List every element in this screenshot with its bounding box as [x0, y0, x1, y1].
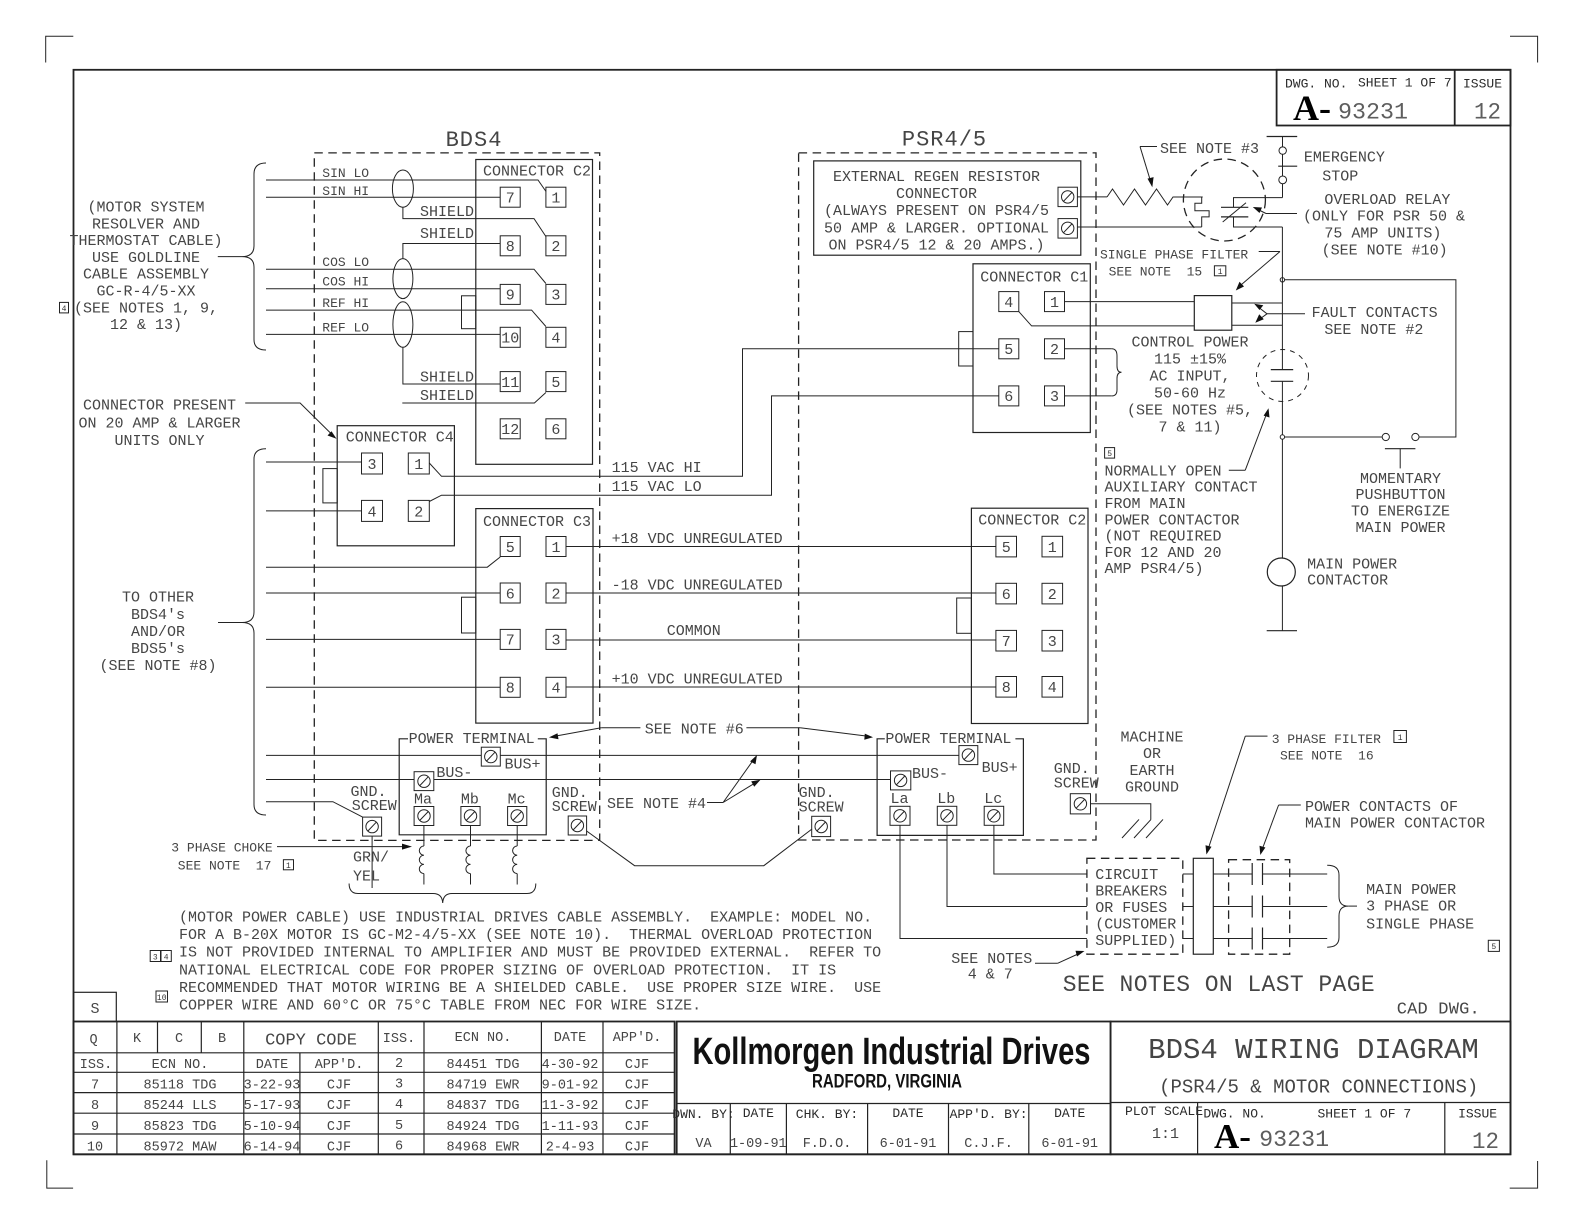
screw terminal BUS+ (BDS4)	[481, 747, 540, 773]
wire SIN HI	[266, 184, 500, 199]
svg-text:A-: A-	[1214, 1117, 1251, 1156]
svg-text:CONNECTOR PRESENT: CONNECTOR PRESENT	[83, 398, 236, 415]
svg-text:ISSUE: ISSUE	[1458, 1107, 1497, 1122]
contactor contact bars phase C	[1252, 928, 1262, 950]
connector C3 (BDS4)	[462, 509, 594, 723]
svg-text:4: 4	[164, 953, 169, 962]
connector C2 (PSR)	[957, 508, 1088, 723]
C2 pin 6	[546, 419, 566, 439]
svg-text:PUSHBUTTON: PUSHBUTTON	[1355, 487, 1445, 504]
svg-text:POWER CONTACTOR: POWER CONTACTOR	[1105, 512, 1240, 529]
label BDS4	[446, 128, 503, 153]
svg-text:12: 12	[501, 422, 519, 439]
svg-text:MAIN POWER: MAIN POWER	[1307, 556, 1397, 573]
svg-text:REF HI: REF HI	[322, 296, 369, 311]
svg-text:Ma: Ma	[414, 792, 432, 809]
svg-text:4 & 7: 4 & 7	[968, 967, 1013, 984]
svg-text:10: 10	[501, 331, 519, 348]
3 phase filter block	[1193, 858, 1213, 954]
svg-text:7: 7	[91, 1079, 99, 1094]
svg-text:85823 TDG: 85823 TDG	[144, 1120, 217, 1135]
wire shield of SIN pair to pin 2	[403, 204, 546, 237]
svg-text:(SEE NOTES 1, 9,: (SEE NOTES 1, 9,	[74, 300, 218, 317]
revision table row ISS 8 and 4	[91, 1098, 649, 1114]
note flag 4	[60, 302, 69, 313]
svg-text:STOP: STOP	[1322, 169, 1358, 186]
svg-text:PLOT SCALE: PLOT SCALE	[1125, 1104, 1203, 1119]
svg-text:SEE NOTE 17: SEE NOTE 17	[178, 859, 272, 874]
gnd screw left (PSR)	[799, 785, 844, 837]
contact terminal circle B	[1412, 433, 1419, 440]
single phase filter box	[1194, 296, 1232, 331]
svg-text:Mc: Mc	[508, 792, 526, 809]
svg-text:CJF: CJF	[327, 1099, 351, 1114]
label FAULT CONTACTS with arrows	[1254, 304, 1437, 339]
svg-text:5: 5	[1004, 342, 1013, 359]
gnd screw right (BDS4)	[552, 785, 597, 835]
svg-text:CONNECTOR: CONNECTOR	[896, 186, 977, 203]
svg-text:DATE: DATE	[1054, 1106, 1085, 1121]
wire +10 VDC UNREGULATED	[566, 672, 996, 689]
svg-text:2: 2	[551, 239, 560, 256]
note flag 5 (right edge)	[1488, 940, 1499, 952]
PSR C2 pin 7	[996, 630, 1017, 651]
svg-text:DATE: DATE	[554, 1031, 586, 1046]
wire from regen screw 1	[1077, 196, 1107, 198]
wire bus to C3 pin 6	[266, 592, 500, 594]
earth ground symbol	[1122, 819, 1163, 838]
company title block	[672, 1022, 1110, 1155]
svg-text:1:1: 1:1	[1152, 1126, 1179, 1143]
resistor external regen	[1107, 189, 1203, 205]
C2 pin 8	[500, 236, 520, 256]
gnd screw left (BDS4)	[351, 784, 397, 836]
svg-text:(ALWAYS PRESENT ON PSR4/5: (ALWAYS PRESENT ON PSR4/5	[824, 203, 1049, 220]
svg-text:CIRCUIT: CIRCUIT	[1095, 867, 1158, 884]
svg-text:GROUND: GROUND	[1125, 780, 1179, 797]
momentary pushbutton actuator	[1385, 449, 1416, 469]
svg-text:11-3-92: 11-3-92	[542, 1099, 599, 1114]
svg-text:SCREW: SCREW	[352, 798, 397, 815]
svg-text:SIN LO: SIN LO	[322, 166, 369, 181]
svg-text:3: 3	[1050, 389, 1059, 406]
svg-text:3: 3	[395, 1078, 403, 1093]
main control bus vertical	[1281, 227, 1283, 631]
revision table row ISS 9 and 5	[91, 1119, 649, 1135]
svg-text:4: 4	[395, 1098, 403, 1113]
svg-text:12: 12	[1472, 1129, 1499, 1155]
C1 pin 5	[999, 339, 1019, 359]
svg-text:Lc: Lc	[984, 791, 1002, 808]
revision table grid	[74, 1022, 675, 1155]
svg-text:ISS.: ISS.	[383, 1032, 415, 1047]
svg-text:84924 TDG: 84924 TDG	[447, 1120, 520, 1135]
wire motor phase Mc with choke coil	[513, 826, 518, 885]
power terminal PSR	[877, 731, 1023, 835]
svg-text:SEE NOTES: SEE NOTES	[951, 951, 1032, 968]
svg-text:A-: A-	[1293, 88, 1331, 128]
contact terminal circle A	[1382, 433, 1389, 440]
PSR4/5 enclosure dashed box	[799, 153, 1096, 840]
svg-text:1: 1	[1398, 734, 1403, 743]
C2 pin 12	[500, 419, 520, 439]
contactor contact bars phase A	[1252, 863, 1262, 885]
svg-text:EMERGENCY: EMERGENCY	[1304, 150, 1385, 167]
svg-text:9: 9	[91, 1120, 99, 1135]
svg-text:2: 2	[414, 504, 423, 521]
wire motor phase Mb with choke coil	[466, 826, 471, 885]
svg-text:1-09-91: 1-09-91	[730, 1137, 787, 1152]
svg-text:FAULT CONTACTS: FAULT CONTACTS	[1312, 305, 1438, 322]
svg-text:+18 VDC UNREGULATED: +18 VDC UNREGULATED	[612, 531, 783, 548]
note flag 1 (choke)	[283, 860, 293, 871]
svg-text:4: 4	[551, 331, 560, 348]
wire -18 VDC UNREGULATED	[566, 578, 996, 595]
PSR C2 pin 5	[996, 536, 1017, 557]
bus termination bar	[1267, 630, 1297, 632]
note NORMALLY OPEN AUXILIARY CONTACT with arrow	[1105, 408, 1270, 578]
svg-text:8: 8	[1002, 680, 1011, 697]
label SEE NOTE #3 with arrow	[1140, 141, 1259, 187]
svg-text:OVERLOAD RELAY: OVERLOAD RELAY	[1324, 192, 1450, 209]
PSR C2 pin 4	[1042, 677, 1063, 698]
svg-text:CAD DWG.: CAD DWG.	[1397, 1001, 1480, 1020]
label SEE NOTES ON LAST PAGE	[1063, 972, 1375, 998]
svg-text:2: 2	[1048, 587, 1057, 604]
svg-text:OR FUSES: OR FUSES	[1095, 900, 1167, 917]
svg-text:115 VAC LO: 115 VAC LO	[612, 479, 702, 496]
ground bus between BDS4 and PSR gnd screws	[587, 829, 812, 866]
svg-text:9-01-92: 9-01-92	[542, 1079, 599, 1094]
C3 pin 3	[546, 629, 566, 649]
svg-text:APP'D. BY:: APP'D. BY:	[950, 1107, 1028, 1122]
wire PSR gnd screw to earth	[1091, 804, 1151, 820]
wire shield to pin 8	[403, 226, 500, 259]
svg-text:FOR 12 AND 20: FOR 12 AND 20	[1105, 545, 1222, 562]
connector C4 (BDS4)	[323, 426, 455, 546]
svg-text:75 AMP UNITS): 75 AMP UNITS)	[1324, 226, 1441, 243]
svg-text:SCREW: SCREW	[799, 800, 844, 817]
svg-text:BUS-: BUS-	[436, 765, 472, 782]
svg-text:IS NOT PROVIDED INTERNAL TO AM: IS NOT PROVIDED INTERNAL TO AMPLIFIER AN…	[179, 945, 881, 962]
svg-text:85972 MAW: 85972 MAW	[144, 1140, 218, 1155]
svg-text:2: 2	[395, 1057, 403, 1072]
C2 pin 3	[546, 284, 566, 304]
external regen resistor connector box	[814, 161, 1081, 255]
svg-text:B: B	[218, 1032, 226, 1047]
svg-text:6: 6	[506, 586, 515, 603]
svg-text:SEE NOTE #3: SEE NOTE #3	[1160, 141, 1259, 158]
svg-text:3-22-93: 3-22-93	[244, 1079, 301, 1094]
C1 pin 1	[1045, 292, 1065, 312]
C4 pin 2	[408, 500, 429, 521]
screw terminal Mc	[508, 792, 527, 826]
svg-text:6: 6	[395, 1139, 403, 1154]
PSR C2 pin 1	[1042, 536, 1063, 557]
svg-text:85244 LLS: 85244 LLS	[144, 1099, 217, 1114]
svg-text:COPPER WIRE AND 60°C OR 75°C T: COPPER WIRE AND 60°C OR 75°C TABLE FROM …	[179, 998, 701, 1015]
svg-text:CONNECTOR C4: CONNECTOR C4	[346, 429, 454, 446]
screw terminal BUS- (PSR)	[891, 766, 949, 790]
screw terminal Lb	[937, 791, 957, 825]
svg-text:93231: 93231	[1259, 1127, 1329, 1153]
svg-text:NORMALLY OPEN: NORMALLY OPEN	[1105, 463, 1222, 480]
svg-text:POWER TERMINAL: POWER TERMINAL	[409, 731, 535, 748]
svg-text:5: 5	[551, 375, 560, 392]
note flag 5 (aux contact)	[1105, 448, 1115, 459]
svg-text:Q: Q	[89, 1033, 97, 1048]
svg-text:BDS4: BDS4	[446, 128, 503, 153]
svg-text:ECN NO.: ECN NO.	[152, 1058, 209, 1073]
svg-text:MAIN POWER: MAIN POWER	[1355, 520, 1445, 537]
svg-text:CONTACTOR: CONTACTOR	[1307, 572, 1388, 589]
circuit breakers dashed box	[1087, 858, 1183, 954]
wire SIN LO	[266, 166, 546, 192]
svg-text:(PSR4/5 & MOTOR CONNECTIONS): (PSR4/5 & MOTOR CONNECTIONS)	[1159, 1077, 1478, 1099]
power terminal BDS4	[399, 731, 546, 835]
svg-text:7 & 11): 7 & 11)	[1158, 420, 1221, 437]
svg-text:FOR A B-20X MOTOR IS GC-M2-4/5: FOR A B-20X MOTOR IS GC-M2-4/5-XX (SEE N…	[179, 927, 872, 944]
svg-text:PSR4/5: PSR4/5	[902, 128, 987, 153]
C1 pin 6	[999, 386, 1019, 406]
label MACHINE OR EARTH GROUND	[1120, 730, 1183, 797]
label SEE NOTE #4 with arrows	[607, 755, 761, 813]
svg-text:84451 TDG: 84451 TDG	[447, 1058, 520, 1073]
svg-text:MACHINE: MACHINE	[1120, 730, 1183, 747]
note flags 3 4	[150, 951, 171, 963]
C3 pin 7	[500, 629, 520, 649]
note (MOTOR SYSTEM RESOLVER AND THERMOSTAT CABLE)	[69, 200, 222, 335]
screw terminal Lc	[984, 791, 1004, 825]
wire C1 pin 2 to brace	[1065, 348, 1112, 350]
svg-text:1-11-93: 1-11-93	[542, 1120, 599, 1135]
twisted pair symbol COS	[393, 259, 413, 299]
svg-text:C: C	[175, 1032, 183, 1047]
svg-text:CJF: CJF	[625, 1058, 649, 1073]
drawing title block	[1111, 1022, 1511, 1157]
svg-text:SEE NOTE #6: SEE NOTE #6	[645, 722, 744, 739]
svg-text:CJF: CJF	[625, 1079, 649, 1094]
wire bus to C3 pin 5	[266, 557, 500, 567]
twisted pair symbol SIN	[392, 170, 413, 207]
svg-text:9: 9	[506, 288, 515, 305]
note flag 10	[156, 991, 168, 1003]
power contacts dashed box	[1229, 860, 1290, 955]
note TO OTHER BDS4's	[99, 590, 216, 675]
C2 pin 7	[500, 187, 520, 207]
wire to gnd screw left	[266, 802, 363, 817]
svg-text:BREAKERS: BREAKERS	[1095, 884, 1167, 901]
svg-text:(SEE NOTES #5,: (SEE NOTES #5,	[1127, 403, 1253, 420]
svg-text:CJF: CJF	[327, 1079, 351, 1094]
svg-text:ON 20 AMP & LARGER: ON 20 AMP & LARGER	[78, 416, 240, 433]
C3 pin 4	[546, 677, 566, 697]
svg-text:GC-R-4/5-XX: GC-R-4/5-XX	[96, 284, 195, 301]
C3 pin 2	[546, 583, 566, 603]
svg-text:SEE NOTES ON LAST PAGE: SEE NOTES ON LAST PAGE	[1063, 972, 1375, 998]
svg-text:SCREW: SCREW	[552, 799, 597, 816]
svg-text:APP'D.: APP'D.	[315, 1058, 364, 1073]
svg-text:85118 TDG: 85118 TDG	[144, 1079, 217, 1094]
wire break staircase	[1195, 197, 1209, 227]
svg-text:3: 3	[551, 288, 560, 305]
svg-text:(MOTOR SYSTEM: (MOTOR SYSTEM	[87, 200, 204, 217]
svg-text:3: 3	[1048, 634, 1057, 651]
svg-text:DATE: DATE	[743, 1106, 774, 1121]
revision table row ISS 7 and 3	[91, 1078, 649, 1094]
PSR C2 pin 3	[1042, 630, 1063, 651]
svg-text:2: 2	[551, 586, 560, 603]
svg-text:CHK. BY:: CHK. BY:	[796, 1107, 858, 1122]
svg-text:(ONLY FOR PSR 50 &: (ONLY FOR PSR 50 &	[1303, 209, 1465, 226]
svg-text:6-14-94: 6-14-94	[244, 1140, 301, 1155]
svg-text:ECN NO.: ECN NO.	[455, 1031, 512, 1046]
svg-text:CONTROL POWER: CONTROL POWER	[1131, 335, 1248, 352]
wire bus to C4 pin 4	[266, 510, 362, 512]
connector C1 (PSR)	[959, 264, 1091, 433]
twisted pair symbol REF	[393, 302, 413, 348]
svg-text:1: 1	[1048, 540, 1057, 557]
svg-text:7: 7	[506, 191, 515, 208]
svg-text:ISSUE: ISSUE	[1463, 77, 1502, 92]
svg-text:84968 EWR: 84968 EWR	[447, 1140, 520, 1155]
svg-text:(NOT REQUIRED: (NOT REQUIRED	[1105, 529, 1222, 546]
wire Lb to breakers	[947, 825, 1087, 906]
node junction lower	[1280, 435, 1284, 439]
svg-text:3 PHASE OR: 3 PHASE OR	[1366, 899, 1456, 916]
C4 pin 4	[362, 500, 383, 521]
wire REF HI	[266, 296, 546, 327]
screw terminal BUS- (BDS4)	[414, 765, 472, 791]
top title block	[1277, 70, 1511, 128]
svg-text:SHIELD: SHIELD	[420, 226, 474, 243]
svg-text:THERMOSTAT CABLE): THERMOSTAT CABLE)	[69, 233, 222, 250]
overload relay dashed circle	[1183, 159, 1265, 241]
svg-text:5: 5	[395, 1119, 403, 1134]
svg-text:C.J.F.: C.J.F.	[964, 1137, 1013, 1152]
svg-text:CJF: CJF	[625, 1099, 649, 1114]
svg-text:CJF: CJF	[625, 1120, 649, 1135]
C4 pin 3	[362, 453, 383, 474]
C2 pin 4	[546, 327, 566, 347]
svg-text:7: 7	[1002, 634, 1011, 651]
svg-text:SHIELD: SHIELD	[420, 388, 474, 405]
svg-text:OR: OR	[1143, 746, 1161, 763]
wire REF LO	[266, 321, 500, 336]
C1 pin 3	[1045, 386, 1065, 406]
svg-text:4: 4	[367, 504, 376, 521]
svg-text:SHEET 1 OF 7: SHEET 1 OF 7	[1318, 1107, 1412, 1122]
motor power cable brace	[349, 884, 536, 904]
contactor coil element	[1257, 350, 1309, 402]
label MAIN POWER 3 PHASE OR SINGLE PHASE	[1366, 882, 1474, 934]
wire filter to bus upper	[1232, 302, 1283, 304]
label 3 PHASE FILTER with arrow	[1206, 732, 1382, 855]
main power contactor coil circle	[1267, 556, 1397, 589]
svg-text:POWER CONTACTS OF: POWER CONTACTS OF	[1305, 799, 1458, 816]
label CAD DWG	[1397, 1001, 1480, 1020]
svg-text:RADFORD, VIRGINIA: RADFORD, VIRGINIA	[812, 1072, 962, 1093]
svg-text:COMMON: COMMON	[667, 623, 721, 640]
screw terminal La	[890, 791, 910, 825]
C2 pin 9	[500, 284, 520, 304]
svg-text:50-60 Hz: 50-60 Hz	[1154, 386, 1226, 403]
svg-text:115 ±15%: 115 ±15%	[1154, 352, 1227, 369]
svg-text:AMP PSR4/5): AMP PSR4/5)	[1105, 561, 1204, 578]
svg-text:MAIN POWER: MAIN POWER	[1366, 882, 1456, 899]
wire phase C through breaker and contact	[1183, 938, 1327, 940]
label POWER CONTACTS OF MAIN POWER CONTACTOR with arrow	[1260, 799, 1486, 855]
svg-text:ISS.: ISS.	[80, 1058, 112, 1073]
wire shield to pin 5	[402, 388, 546, 405]
svg-text:115 VAC HI: 115 VAC HI	[612, 460, 702, 477]
revision table row ISS 10 and 6	[87, 1139, 649, 1155]
svg-text:12 & 13): 12 & 13)	[110, 317, 182, 334]
svg-text:4: 4	[62, 305, 67, 314]
C2 pin 5	[546, 372, 566, 392]
svg-text:8: 8	[506, 239, 515, 256]
svg-text:SHIELD: SHIELD	[420, 370, 474, 387]
svg-text:RECOMMENDED THAT MOTOR WIRING: RECOMMENDED THAT MOTOR WIRING BE A SHIEL…	[179, 980, 881, 997]
svg-text:2-4-93: 2-4-93	[546, 1140, 595, 1155]
svg-text:MAIN POWER CONTACTOR: MAIN POWER CONTACTOR	[1305, 816, 1485, 833]
svg-text:5: 5	[1491, 943, 1496, 952]
svg-text:La: La	[891, 791, 909, 808]
svg-text:-18 VDC UNREGULATED: -18 VDC UNREGULATED	[612, 578, 783, 595]
svg-text:4: 4	[551, 681, 560, 698]
svg-text:SHEET 1 OF 7: SHEET 1 OF 7	[1358, 76, 1452, 91]
svg-text:3 PHASE FILTER: 3 PHASE FILTER	[1272, 732, 1381, 747]
wire bus to C3 pin 7	[266, 638, 500, 640]
svg-text:(CUSTOMER: (CUSTOMER	[1095, 917, 1176, 934]
svg-text:SEE NOTE #2: SEE NOTE #2	[1324, 322, 1423, 339]
svg-text:CONNECTOR C3: CONNECTOR C3	[483, 514, 591, 531]
wire phase A through breaker and contact	[1183, 873, 1327, 875]
svg-text:Mb: Mb	[461, 792, 479, 809]
svg-text:SHIELD: SHIELD	[420, 204, 474, 221]
svg-text:10: 10	[157, 994, 167, 1003]
svg-text:CONNECTOR C2: CONNECTOR C2	[483, 164, 591, 181]
svg-text:COS HI: COS HI	[322, 275, 369, 290]
svg-text:MOMENTARY: MOMENTARY	[1360, 471, 1441, 488]
label PSR4/5	[902, 128, 987, 153]
svg-text:BDS4's: BDS4's	[131, 607, 185, 624]
svg-text:BUS+: BUS+	[505, 757, 541, 774]
wire GRN/YEL ground lead	[353, 836, 389, 888]
wire bus to C4 pin 3	[266, 461, 362, 463]
svg-text:SINGLE PHASE: SINGLE PHASE	[1366, 917, 1474, 934]
wire La to breakers	[900, 825, 1087, 938]
note paragraph motor power cable	[179, 910, 881, 1015]
svg-text:6: 6	[1002, 587, 1011, 604]
svg-text:BDS5's: BDS5's	[131, 641, 185, 658]
overload relay contact	[1221, 198, 1282, 227]
node junction upper	[1280, 278, 1284, 282]
screw terminal Mb	[461, 792, 480, 826]
C3 pin 6	[500, 583, 520, 603]
C3 pin 5	[500, 537, 520, 557]
emergency stop pushbutton	[1267, 137, 1385, 198]
svg-text:RESOLVER AND: RESOLVER AND	[92, 216, 200, 233]
svg-text:UNITS ONLY: UNITS ONLY	[114, 433, 204, 450]
svg-text:TO OTHER: TO OTHER	[122, 590, 194, 607]
svg-text:8: 8	[506, 681, 515, 698]
wire C1 pin 3 to brace	[1065, 395, 1112, 397]
svg-text:CABLE ASSEMBLY: CABLE ASSEMBLY	[83, 267, 209, 284]
svg-text:SEE NOTE #4: SEE NOTE #4	[607, 796, 706, 813]
svg-text:6: 6	[551, 422, 560, 439]
wire 115 VAC HI from C4 pin 1 to C1 pin 5	[429, 349, 999, 477]
